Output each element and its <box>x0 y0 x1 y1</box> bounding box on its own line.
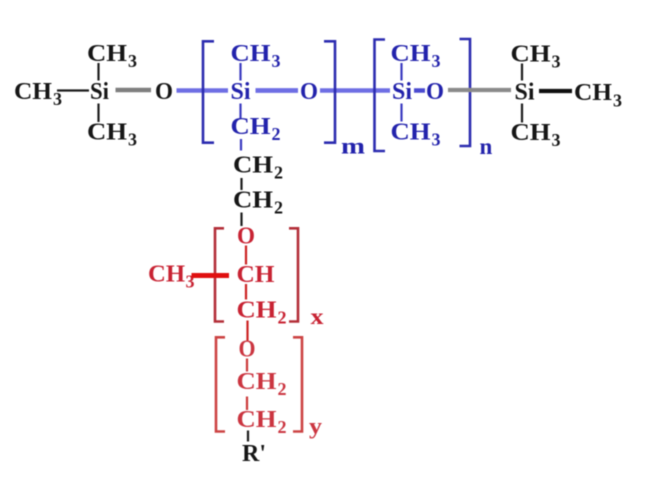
svg-text:CH: CH <box>14 79 52 105</box>
bond CH3-Si left <box>57 89 89 91</box>
bond Si=O unit2 short <box>414 88 425 93</box>
group CH3 top right <box>511 42 561 72</box>
group CH3 right terminal <box>574 80 622 111</box>
svg-text:2: 2 <box>272 124 281 144</box>
svg-text:R': R' <box>242 441 266 467</box>
bracket y close <box>293 337 302 431</box>
bracket n open <box>375 40 386 152</box>
svg-text:3: 3 <box>552 130 561 150</box>
svg-text:3: 3 <box>613 91 622 111</box>
svg-text:2: 2 <box>274 163 283 183</box>
group CH2 yunit1 <box>237 369 287 399</box>
bond O unit1 to Si unit2 <box>320 88 390 93</box>
svg-text:CH: CH <box>231 41 271 67</box>
bond CH3-Si unit1 <box>239 63 241 81</box>
svg-text:CH: CH <box>574 80 612 106</box>
svg-text:CH: CH <box>391 41 431 67</box>
bond Si-CH3 down right <box>521 104 523 123</box>
bracket y open <box>216 337 225 431</box>
svg-text:O: O <box>155 79 173 105</box>
group CH3 bottom left <box>87 120 137 150</box>
svg-text:Si: Si <box>392 79 412 105</box>
group CH3 unit2 bottom <box>391 120 441 150</box>
svg-text:CH: CH <box>231 114 271 140</box>
bond CH2-R' <box>247 431 249 442</box>
bond Si-CH3 up right <box>521 64 523 81</box>
svg-text:CH: CH <box>233 188 273 214</box>
bond Si-CH3 up left <box>97 63 99 81</box>
group CH2 yunit2 <box>237 407 287 437</box>
svg-text:3: 3 <box>128 130 137 150</box>
bond CH-CH2 xunit <box>245 284 247 300</box>
bond Si-O unit1 thick blue <box>256 88 299 93</box>
group CH2 unit1 <box>231 114 281 144</box>
group CH3 left terminal <box>14 79 62 109</box>
bond O unit2 to Si right gray <box>448 88 511 92</box>
svg-text:CH: CH <box>391 120 431 146</box>
svg-text:2: 2 <box>278 417 287 437</box>
bracket m close <box>324 41 335 142</box>
svg-text:Si: Si <box>231 79 251 105</box>
bond CH2-CH2 chain <box>240 178 242 190</box>
svg-text:CH: CH <box>511 42 551 68</box>
group CH3 unit2 top <box>391 41 441 71</box>
svg-text:3: 3 <box>128 51 137 71</box>
bond Si-CH3 thick black right <box>539 89 572 93</box>
bond CH3-CH red thick <box>192 273 230 278</box>
svg-text:CH: CH <box>511 120 551 146</box>
bond CH2-O xy link <box>246 321 248 341</box>
svg-text:3: 3 <box>432 130 441 150</box>
bracket m open <box>203 41 214 142</box>
svg-text:m: m <box>341 134 365 159</box>
group CH3 unit1 top <box>231 41 281 71</box>
svg-text:CH: CH <box>237 369 277 395</box>
bracket x close <box>289 228 298 321</box>
group CH3 red side <box>148 262 195 292</box>
svg-text:n: n <box>480 134 493 159</box>
svg-text:Si: Si <box>515 80 535 106</box>
svg-text:Si: Si <box>90 79 109 105</box>
svg-text:CH: CH <box>87 41 127 67</box>
svg-text:3: 3 <box>552 52 561 72</box>
bond O-CH2 yunit <box>246 359 248 372</box>
svg-text:2: 2 <box>278 308 287 328</box>
group CH2 chain2 <box>233 188 283 218</box>
bond CH2-O chain <box>240 213 242 227</box>
svg-text:y: y <box>309 414 323 439</box>
svg-text:CH: CH <box>148 262 185 288</box>
bracket n close <box>460 39 471 146</box>
svg-text:3: 3 <box>272 51 281 71</box>
bond O to Si unit1 blue <box>177 88 229 93</box>
bond Si-CH2 unit1 <box>239 104 241 119</box>
group CH3 top left <box>87 41 137 71</box>
svg-text:CH: CH <box>237 262 275 288</box>
svg-text:CH: CH <box>233 153 273 179</box>
svg-text:CH: CH <box>237 298 277 324</box>
group CH2 chain1 <box>233 153 283 183</box>
group CH3 bottom right <box>511 120 561 150</box>
bracket x open <box>215 228 224 321</box>
bond CH2-CH2 yunit <box>246 397 248 411</box>
bond CH2-CH2 blue to black <box>240 139 242 151</box>
svg-text:3: 3 <box>432 51 441 71</box>
svg-text:x: x <box>311 304 325 329</box>
svg-text:2: 2 <box>274 198 283 218</box>
group CH2 xunit <box>237 298 287 328</box>
bond Si-CH3 down left <box>97 104 99 123</box>
svg-text:CH: CH <box>87 120 127 146</box>
bond O-CH xunit <box>245 246 247 265</box>
svg-text:CH: CH <box>237 407 277 433</box>
bond CH3-Si unit2 <box>400 63 402 81</box>
svg-text:2: 2 <box>278 379 287 399</box>
svg-text:O: O <box>426 79 444 105</box>
bond Si-O gray left <box>116 88 152 93</box>
svg-text:O: O <box>300 79 318 105</box>
svg-text:3: 3 <box>53 89 62 109</box>
bond Si-CH3 down unit2 <box>400 104 402 122</box>
